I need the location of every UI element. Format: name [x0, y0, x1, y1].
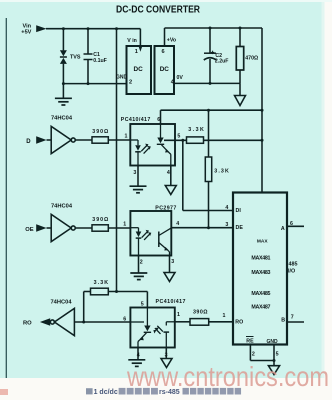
svg-text:3: 3 [165, 352, 168, 358]
svg-text:6: 6 [162, 49, 165, 55]
svg-text:D: D [26, 139, 31, 145]
svg-text:485: 485 [289, 261, 298, 267]
svg-text:2: 2 [252, 352, 255, 358]
svg-text:7: 7 [291, 315, 294, 321]
svg-text:470Ω: 470Ω [245, 56, 258, 62]
svg-text:OE: OE [25, 227, 34, 233]
svg-text:B: B [281, 317, 285, 323]
svg-text:6: 6 [290, 221, 293, 227]
svg-text:6: 6 [123, 316, 126, 322]
svg-text:4: 4 [176, 221, 179, 227]
svg-text:RE: RE [246, 338, 254, 344]
svg-text:MAX: MAX [257, 239, 268, 245]
svg-text:0.1uF: 0.1uF [93, 58, 107, 64]
svg-text:MAX485: MAX485 [251, 291, 270, 297]
svg-text:I/O: I/O [288, 269, 295, 275]
svg-text:DC: DC [134, 66, 144, 73]
svg-text:GND: GND [267, 339, 279, 345]
svg-text:3: 3 [171, 259, 174, 265]
svg-text:74HC04: 74HC04 [51, 115, 72, 121]
svg-text:5: 5 [177, 134, 180, 140]
svg-text:DC: DC [160, 66, 170, 73]
svg-text:A: A [281, 226, 285, 232]
svg-text:4: 4 [137, 353, 140, 359]
svg-text:2: 2 [129, 80, 132, 86]
svg-text:3.3K: 3.3K [214, 168, 229, 174]
svg-text:6: 6 [157, 117, 160, 123]
svg-text:2.2uF: 2.2uF [215, 59, 229, 65]
svg-text:MAX483: MAX483 [251, 270, 270, 276]
svg-text:PC410/417: PC410/417 [121, 117, 151, 123]
svg-text:MAX481: MAX481 [251, 256, 270, 262]
svg-text:5: 5 [276, 352, 279, 358]
svg-text:1: 1 [223, 313, 226, 319]
svg-text:C1: C1 [93, 52, 100, 58]
svg-text:+Vo: +Vo [167, 38, 176, 44]
svg-text:TVS: TVS [70, 54, 81, 60]
svg-text:390Ω: 390Ω [193, 309, 208, 315]
svg-text:DC-DC CONVERTER: DC-DC CONVERTER [116, 4, 200, 16]
svg-text:4: 4 [225, 205, 228, 211]
svg-text:1: 1 [135, 49, 138, 55]
svg-text:+5V: +5V [21, 30, 31, 36]
svg-text:PC410/417: PC410/417 [156, 299, 186, 305]
svg-text:74HC04: 74HC04 [51, 300, 72, 306]
svg-text:3: 3 [133, 170, 136, 176]
svg-text:2: 2 [140, 259, 143, 265]
svg-text:3: 3 [225, 222, 228, 228]
svg-text:DE: DE [236, 225, 244, 231]
svg-text:www.cntronics.com: www.cntronics.com [126, 361, 329, 392]
svg-text:V in: V in [127, 38, 137, 44]
svg-text:DI: DI [236, 208, 242, 214]
svg-text:1: 1 [177, 312, 180, 318]
svg-text:rs-485: rs-485 [159, 389, 180, 396]
svg-text:3.3K: 3.3K [94, 280, 109, 286]
svg-text:MAX487: MAX487 [251, 305, 270, 311]
svg-text:0V: 0V [177, 75, 184, 81]
svg-text:PC2977: PC2977 [155, 206, 176, 212]
svg-text:3.3K: 3.3K [188, 127, 204, 133]
svg-text:4: 4 [167, 170, 170, 176]
svg-text:74HC04: 74HC04 [51, 203, 72, 209]
svg-text:1 dc/dc: 1 dc/dc [94, 389, 118, 396]
svg-text:5: 5 [141, 301, 144, 307]
svg-text:390Ω: 390Ω [92, 217, 109, 223]
svg-text:1: 1 [125, 134, 128, 140]
svg-text:1: 1 [123, 222, 126, 228]
svg-text:RO: RO [23, 320, 32, 326]
svg-text:390Ω: 390Ω [92, 129, 109, 135]
svg-text:GND: GND [116, 75, 128, 81]
svg-text:RO: RO [235, 319, 243, 325]
